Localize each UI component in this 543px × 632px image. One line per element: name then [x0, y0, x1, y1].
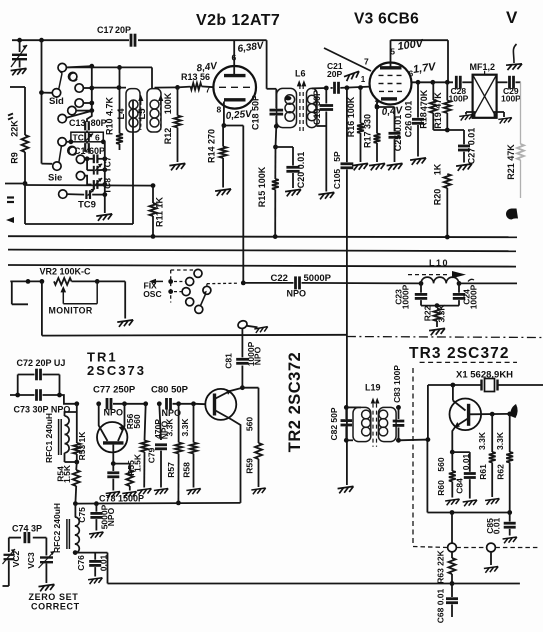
wire grid row	[92, 87, 126, 89]
svg-text:NPO: NPO	[104, 408, 124, 418]
coil L6 secondary	[307, 88, 318, 127]
ground C26	[410, 158, 427, 165]
resistor R9 22K	[10, 86, 25, 88]
switch Sie contact 4 / trimmer TC9	[59, 190, 67, 198]
svg-text:R59: R59	[244, 458, 254, 474]
wire crystal tap down	[427, 385, 429, 440]
wire L6 node down to R15 via C18	[275, 126, 278, 147]
top right ground stub	[513, 44, 516, 63]
svg-text:R15 100K: R15 100K	[257, 166, 267, 207]
switch Sie hook contact	[68, 146, 76, 154]
svg-text:20P: 20P	[327, 69, 342, 79]
svg-text:TC: TC	[73, 132, 84, 142]
node TC box corners	[69, 139, 74, 144]
transistor TR2 2SC372	[205, 389, 236, 420]
ground C105 line	[338, 486, 355, 493]
ground R12	[169, 163, 186, 170]
choke RFC2 240uH	[74, 504, 76, 517]
svg-text:L5: L5	[137, 108, 148, 120]
terminal out 2	[487, 543, 496, 552]
node C22 input	[241, 281, 246, 286]
antenna trimmer VC1	[17, 38, 22, 43]
svg-text:100P: 100P	[449, 94, 469, 104]
L6 slug arrows	[297, 80, 302, 86]
switch Sid contact 3	[75, 99, 83, 107]
transistor TR3 2SC372	[451, 383, 456, 388]
svg-text:R20: R20	[433, 189, 443, 206]
wire C17 to V2b plate	[138, 39, 267, 41]
svg-text:TC9: TC9	[78, 200, 96, 211]
svg-text:MF1,2: MF1,2	[470, 62, 496, 72]
svg-text:R60: R60	[436, 480, 446, 496]
svg-text:47K: 47K	[433, 92, 443, 109]
capacitor C17 20P	[130, 34, 133, 47]
svg-text:R58: R58	[181, 462, 191, 478]
capacitor C23 1000P	[420, 283, 422, 292]
svg-text:R14 270: R14 270	[207, 129, 217, 163]
svg-text:C68 0.01: C68 0.01	[436, 588, 446, 623]
capacitor C78 1500P	[112, 464, 114, 471]
svg-text:7: 7	[206, 85, 211, 95]
svg-text:C75: C75	[77, 507, 87, 523]
V2b heater dashes	[219, 86, 251, 88]
V3 screen wire to MF	[411, 81, 453, 83]
node antenna junction	[39, 38, 44, 43]
wire L6 sec top	[312, 87, 327, 89]
svg-text:TR2 2SC372: TR2 2SC372	[286, 352, 304, 452]
svg-text:5P: 5P	[332, 151, 342, 162]
capacitor C21 20P	[331, 87, 333, 89]
bus line 2	[8, 250, 516, 252]
arrow mark collector	[510, 404, 517, 418]
svg-text:C76: C76	[76, 555, 86, 571]
VR2 left stub	[11, 281, 13, 304]
svg-text:1000P: 1000P	[468, 284, 478, 309]
FIX OSC blade	[203, 286, 211, 294]
wire switch box outline	[25, 223, 133, 225]
capacitor C28 100P	[455, 76, 458, 89]
svg-text:C19 50P: C19 50P	[312, 90, 322, 125]
ground VR2 right end	[124, 281, 126, 318]
TR3 emitter	[452, 418, 468, 452]
switch Sid rotor	[52, 89, 60, 97]
svg-text:0.01: 0.01	[492, 517, 502, 534]
resistor R13 56	[178, 86, 191, 89]
V2b cathode	[224, 98, 246, 101]
wire AF line	[42, 334, 347, 337]
svg-text:CORRECT: CORRECT	[31, 602, 80, 612]
svg-text:560: 560	[436, 457, 446, 471]
resistor R12 100K	[175, 85, 180, 90]
svg-text:C77 250P: C77 250P	[93, 385, 136, 396]
capacitor C26 0.01	[417, 82, 419, 117]
dash-dot line right	[347, 337, 543, 338]
resistor R22 3.3K	[421, 305, 459, 307]
wire to TR1 base rail	[60, 395, 77, 404]
svg-text:R53 1K: R53 1K	[77, 431, 87, 461]
switch Sie contact 1	[58, 138, 66, 146]
ground C20	[285, 189, 302, 196]
dashed box TR3	[412, 368, 414, 546]
resistor R55 1.5K	[113, 463, 130, 465]
svg-text:NPO: NPO	[253, 346, 263, 365]
slug arrow L5	[160, 102, 162, 130]
coil L4	[126, 89, 140, 132]
svg-text:R11 1K: R11 1K	[154, 196, 164, 227]
wire Sid bus	[91, 66, 93, 111]
switch Sie contact 3	[76, 172, 84, 180]
resistor R56 560	[143, 401, 148, 406]
switch Sie contact 2	[76, 155, 84, 163]
svg-text:100K: 100K	[163, 92, 173, 114]
svg-text:20P: 20P	[115, 25, 131, 35]
resistor R17 330	[376, 107, 378, 134]
svg-text:2SC373: 2SC373	[87, 363, 146, 378]
svg-text:1.5K: 1.5K	[133, 453, 143, 472]
resistor R58 3.3K	[191, 401, 196, 406]
svg-text:R17 330: R17 330	[362, 114, 372, 148]
trimmer TC6 box	[71, 132, 103, 142]
svg-text:R61: R61	[478, 464, 488, 480]
svg-text:3.3K: 3.3K	[180, 418, 190, 437]
capacitor C105 5P line	[346, 88, 348, 162]
photo blob	[506, 209, 518, 220]
svg-text:C80 50P: C80 50P	[151, 385, 189, 396]
svg-text:C105: C105	[332, 169, 342, 190]
svg-text:5000P: 5000P	[304, 273, 332, 284]
capacitor C13 80P	[84, 121, 86, 130]
capacitor C75 5000P NPO	[95, 504, 97, 512]
svg-text:560: 560	[244, 417, 254, 431]
svg-text:C79: C79	[146, 447, 156, 463]
emitter to ground rail	[75, 502, 240, 505]
svg-text:TR3 2SC372: TR3 2SC372	[409, 345, 510, 362]
tube V3 pentode	[370, 63, 412, 105]
TR2 collector	[215, 388, 243, 399]
svg-text:ZERO SET: ZERO SET	[29, 592, 79, 602]
capacitor C29 100P	[497, 81, 508, 83]
TR2 emitter	[215, 410, 241, 503]
tube V2b triode	[213, 66, 256, 109]
capacitor C81 1000P NPO	[241, 366, 243, 388]
svg-text:R62: R62	[495, 464, 505, 480]
svg-text:C73 30P NPO: C73 30P NPO	[14, 405, 71, 415]
resistor R57 3.3K	[176, 401, 181, 406]
svg-text:VR2 100K-C: VR2 100K-C	[40, 267, 92, 277]
resistor R19 47K	[446, 82, 448, 100]
svg-text:R21 47K: R21 47K	[506, 144, 516, 180]
bus line 1	[8, 236, 517, 237]
svg-text:22K: 22K	[10, 120, 20, 137]
coil L19 primary	[346, 406, 361, 408]
svg-text:R12: R12	[163, 128, 173, 145]
ground C27	[456, 164, 473, 171]
svg-text:L19: L19	[365, 383, 381, 393]
svg-text:RFC1 240uH: RFC1 240uH	[44, 413, 54, 463]
resistor R14 270	[222, 126, 224, 147]
resistor R62 3.3K	[509, 414, 511, 452]
svg-text:Sid: Sid	[49, 96, 64, 107]
svg-text:C81: C81	[224, 353, 234, 369]
switch Sid contact 5	[58, 114, 66, 122]
capacitor C85 0.01	[509, 513, 511, 522]
coil L5	[147, 89, 161, 132]
resistor R15 100K	[274, 147, 276, 179]
svg-text:1K: 1K	[433, 163, 443, 175]
svg-text:R10 4.7K: R10 4.7K	[105, 96, 115, 135]
resistor R20 1K	[444, 174, 451, 188]
wire to audio bottom rail	[107, 553, 109, 584]
svg-text:C27 0.01: C27 0.01	[467, 128, 477, 165]
svg-text:8: 8	[217, 105, 222, 115]
slug arrow L4	[140, 102, 142, 130]
filter MF1,2	[473, 75, 497, 118]
ground R17	[369, 163, 386, 170]
svg-text:R16 100K: R16 100K	[346, 96, 356, 137]
wire L5 to R13	[155, 86, 178, 88]
svg-text:R9: R9	[10, 152, 20, 164]
capacitor C68 0.01	[451, 584, 453, 598]
potentiometer VR2 100K-C	[10, 280, 42, 282]
ground R14	[215, 189, 232, 196]
wire TR2 base	[195, 403, 206, 405]
left margin marks	[8, 114, 13, 116]
svg-text:C20 0.01: C20 0.01	[296, 152, 306, 189]
svg-text:7: 7	[364, 57, 369, 67]
svg-text:1.5K: 1.5K	[62, 464, 72, 483]
VR2 wiper	[61, 286, 67, 292]
wire bottom node rail	[427, 512, 509, 514]
choke RFC1 240uH	[76, 404, 78, 412]
crystal X1	[428, 384, 481, 386]
wire top row to L5	[41, 66, 43, 68]
svg-text:R18: R18	[419, 112, 429, 129]
capacitor C76 0.01	[75, 552, 107, 554]
varicap VC3	[45, 538, 47, 556]
svg-text:560: 560	[132, 414, 142, 428]
svg-text:R63 22K: R63 22K	[436, 549, 446, 583]
dashed link to C22 node	[206, 284, 208, 287]
wire V3 cathode	[376, 101, 378, 108]
svg-text:C82 50P: C82 50P	[329, 407, 339, 440]
svg-text:L4: L4	[116, 108, 127, 120]
svg-text:3.3K: 3.3K	[437, 304, 447, 323]
dashed link terminals	[413, 547, 448, 548]
ground C19	[318, 192, 335, 199]
svg-text:R19: R19	[433, 112, 443, 129]
svg-text:0.01: 0.01	[461, 453, 471, 470]
trimmer TC7	[93, 154, 95, 163]
svg-text:C22: C22	[271, 273, 288, 284]
capacitor C14 60P	[86, 142, 88, 144]
svg-text:1000P: 1000P	[400, 284, 410, 309]
switch Sid contact 1	[58, 63, 66, 71]
wire to band switch rotors	[41, 40, 43, 163]
svg-text:NPO: NPO	[287, 289, 307, 299]
capacitor C25 0.01	[377, 106, 395, 108]
svg-text:VC3: VC3	[26, 552, 36, 569]
resistor R63 22K	[451, 552, 453, 558]
TR3 collector	[469, 413, 510, 415]
wire cathode node to FIX OSC line	[224, 125, 243, 127]
svg-text:3.3K: 3.3K	[495, 431, 505, 450]
svg-text:R57: R57	[166, 462, 176, 478]
svg-text:6: 6	[232, 53, 237, 63]
jack terminal	[237, 319, 248, 329]
resistor R59 560	[242, 387, 258, 389]
L6 core dashes	[299, 85, 301, 134]
V3 plate to top rail	[390, 40, 392, 68]
MF left foot ground	[466, 112, 475, 118]
node R9 bottom	[23, 181, 28, 186]
V3 grid cap wire to ground	[324, 48, 371, 71]
capacitor C18 50P	[275, 89, 277, 108]
ground antenna	[11, 68, 28, 75]
V2b plate	[224, 74, 246, 77]
MF right foot ground	[495, 112, 505, 118]
resistor R54 1.5K	[74, 460, 79, 465]
switch Sid contact 2	[75, 84, 83, 92]
varicap VC2	[8, 538, 10, 552]
wire L10 out	[459, 282, 517, 284]
resistor R10 4.7K	[117, 65, 122, 70]
trimmer TC8	[85, 176, 92, 185]
svg-text:C78 1500P: C78 1500P	[99, 494, 144, 504]
svg-text:C84: C84	[455, 478, 465, 494]
switch Sie rotor	[53, 162, 61, 170]
svg-text:6: 6	[95, 132, 100, 142]
resistor R11 1K	[151, 183, 156, 188]
svg-text:MONITOR: MONITOR	[49, 306, 93, 316]
transistor TR1 2SC373	[97, 422, 127, 452]
wire Sie ground bus	[104, 142, 106, 213]
svg-text:C83 100P: C83 100P	[392, 365, 402, 403]
capacitor C73 30P NPO	[10, 394, 35, 396]
L19 core dashes	[372, 404, 374, 447]
resistor R60 560	[451, 452, 453, 471]
ground C25	[387, 163, 404, 170]
capacitor C27 0.01	[447, 129, 464, 131]
svg-text:3.3K: 3.3K	[164, 418, 174, 437]
capacitor C84 0.01	[452, 451, 470, 453]
svg-text:OSC: OSC	[143, 289, 161, 299]
svg-text:C74 3P: C74 3P	[12, 524, 42, 534]
resistor R21 47K faint	[520, 82, 522, 144]
svg-text:100P: 100P	[501, 94, 521, 104]
svg-text:C25 0.01: C25 0.01	[393, 115, 403, 152]
TR1 collector	[96, 401, 101, 406]
svg-text:Sie: Sie	[48, 173, 62, 184]
capacitor C19 50P	[325, 88, 327, 104]
svg-text:L10: L10	[429, 258, 449, 268]
wire plate corner	[266, 40, 268, 89]
TR1 emitter	[122, 401, 127, 406]
wire top antenna rail	[12, 39, 129, 41]
wire bottom long rail	[108, 583, 520, 585]
svg-text:C17: C17	[97, 25, 114, 35]
TR1 base down	[112, 445, 114, 464]
resistor R18 470K	[432, 82, 434, 100]
switch Sid contact 4	[68, 106, 76, 114]
svg-text:V: V	[506, 8, 518, 27]
svg-text:1: 1	[361, 75, 366, 84]
svg-text:470K: 470K	[419, 89, 429, 111]
resistor R16 100K	[360, 88, 362, 124]
capacitor C83 100P	[396, 405, 401, 410]
svg-text:RFC2 240uH: RFC2 240uH	[52, 503, 62, 553]
coil L19 secondary	[378, 407, 396, 441]
svg-text:VC2: VC2	[11, 550, 21, 567]
resistor R53 1K	[76, 412, 78, 443]
svg-text:V3 6CB6: V3 6CB6	[354, 11, 419, 28]
L19 slug arrows	[371, 398, 376, 404]
ground R22	[429, 328, 446, 335]
wire Sid bus to C13	[87, 111, 92, 122]
svg-text:NPO: NPO	[106, 507, 116, 526]
coil L6 primary	[277, 88, 297, 127]
capacitor C20 0.01	[276, 146, 294, 148]
switch Sid spare contact	[69, 72, 77, 80]
resistor R61 3.3K	[491, 414, 493, 452]
wire VR2 tap down to AF line	[41, 281, 43, 335]
svg-text:C26 0.01: C26 0.01	[403, 101, 413, 138]
svg-text:3.3K: 3.3K	[477, 431, 487, 450]
capacitor C24 1000P	[458, 283, 460, 292]
svg-text:C18 50P: C18 50P	[250, 95, 260, 130]
terminal out 1	[451, 513, 453, 544]
svg-text:R22: R22	[423, 305, 433, 321]
capacitor C82 50P	[344, 405, 349, 410]
svg-text:L6: L6	[295, 69, 306, 79]
svg-text:C72 20P UJ: C72 20P UJ	[17, 358, 66, 368]
ground R16	[352, 163, 369, 170]
bus line 3	[8, 265, 516, 267]
wire cathode to R14	[223, 102, 225, 126]
wire R9 node to R11	[25, 184, 153, 187]
svg-text:C13: C13	[69, 118, 86, 128]
wire L19 out	[399, 440, 428, 513]
svg-text:V2b 12AT7: V2b 12AT7	[196, 12, 280, 29]
capacitor C22 5000P	[243, 282, 293, 284]
capacitor C79 470P	[157, 401, 162, 406]
